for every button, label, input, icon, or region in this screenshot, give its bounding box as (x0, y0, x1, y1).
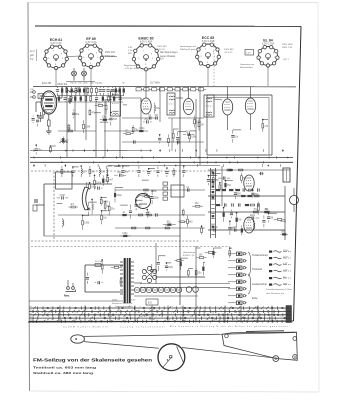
wire long vertical x75 (74, 96, 76, 131)
wire mid L2 (36, 204, 44, 206)
wire lamp link (66, 81, 95, 83)
capacitor Cam1 (34, 199, 38, 201)
capacitor C61 (159, 135, 161, 137)
capacitor C142 (86, 273, 88, 276)
resistor R163 (212, 248, 214, 250)
dial cord upper (84, 334, 219, 336)
svg-text:2,2V 0V: 2,2V 0V (157, 49, 165, 51)
svg-text:12V: 12V (160, 59, 164, 61)
resistor R45 (95, 104, 98, 106)
resistor R122 (192, 205, 195, 207)
chain component R10 (96, 88, 98, 92)
tube V5 EM84 circle (136, 194, 151, 209)
wire W75 (263, 119, 268, 121)
wire fm grid (36, 101, 41, 103)
wire W159 (203, 261, 205, 263)
svg-text:gez.: gez. (283, 277, 287, 279)
coil L81 (98, 166, 100, 169)
aux symbol X1 (269, 251, 292, 253)
resistor R80 (89, 166, 91, 169)
chain2 component R25 (95, 97, 98, 99)
wire rail if 2 (58, 130, 96, 132)
resistor R146 (120, 278, 122, 279)
resistor R54 (49, 145, 51, 148)
wire long vertical x160 (159, 87, 161, 122)
svg-text:Alle Kontakte in Stellung M vo: Alle Kontakte in Stellung M von der Achs… (170, 325, 288, 328)
plate screw right top (293, 337, 297, 341)
capacitor C143 (95, 282, 96, 284)
wire W130 (225, 180, 232, 182)
chain2 component R24 (90, 96, 92, 100)
wire rail if 3 (122, 141, 204, 143)
chain component R2 (61, 89, 63, 93)
capacitor C94 (183, 166, 185, 169)
wire ps riser x156 (155, 243, 157, 284)
capacitor C86 (122, 166, 124, 169)
resistor R140 (280, 233, 281, 235)
wire audio r2 (221, 166, 223, 206)
tube socket U2 EF 89 (79, 37, 104, 69)
svg-text:100V 85V: 100V 85V (224, 49, 234, 51)
wire switch riser W235 (224, 306, 226, 323)
capacitor C124 (207, 176, 209, 178)
wire long vertical x86 (85, 87, 87, 140)
coil L82 (106, 166, 108, 169)
aux symbol X3 (269, 264, 292, 266)
series resistor R200 (68, 130, 72, 132)
wire v4 bottom (227, 115, 229, 130)
wire ps row 3 (140, 286, 230, 288)
chain component R6 (79, 89, 81, 93)
svg-text:k: k (281, 316, 282, 318)
resistor R167 (89, 182, 91, 185)
svg-text:20kOhm/V gem.: 20kOhm/V gem. (180, 49, 196, 51)
switch bank row M (29, 313, 291, 317)
wire W96 (57, 203, 63, 205)
capacitor C131 (231, 210, 233, 212)
resistor R98 (68, 206, 70, 208)
coil L97 (62, 218, 64, 220)
svg-text:1,2V: 1,2V (128, 50, 133, 52)
resistor R169 (102, 175, 104, 178)
capacitor C59 (143, 121, 145, 123)
wire W151 (166, 262, 171, 264)
wire W55 (50, 145, 55, 147)
capacitor C95 (57, 197, 60, 199)
svg-text:1M: 1M (201, 125, 204, 127)
wire W100 (83, 214, 89, 216)
chain box L37 (191, 88, 196, 91)
svg-text:1M: 1M (270, 218, 273, 220)
resistor R128 (219, 183, 221, 185)
wire ps out (157, 276, 205, 278)
chain component R1 (56, 89, 59, 91)
resistor R135 (257, 202, 259, 206)
resistor R113 (142, 195, 145, 197)
resistor R68 (189, 131, 191, 134)
svg-text:0,3V: 0,3V (128, 47, 133, 49)
chain box L38 (198, 88, 203, 91)
resistor R106 (114, 188, 116, 193)
wire if top 3 (214, 99, 222, 100)
tube socket U4 ECC 85 (196, 36, 221, 68)
resistor R174 (104, 202, 106, 204)
resistor R157 (195, 267, 197, 270)
fm antenna terminals (30, 89, 35, 98)
chain2 component R23 (85, 96, 87, 100)
svg-text:Gemessen mit: Gemessen mit (240, 63, 254, 66)
page bottom edge (29, 391, 319, 392)
series resistor R178 (229, 169, 233, 171)
svg-text:1,2V: 1,2V (246, 53, 251, 55)
chain component R13 (107, 89, 110, 91)
frame bottom border (28, 321, 294, 322)
series resistor R181 (248, 195, 252, 197)
bus line contact ticks (33, 149, 35, 152)
electrolytic C55 (164, 287, 169, 292)
wire W52 (111, 111, 112, 113)
capacitor C89 (148, 169, 150, 170)
resistor R93 (173, 168, 175, 170)
resistor R118 (163, 224, 167, 226)
fm coil L1 (66, 87, 78, 92)
svg-text:von vorn gesehen: von vorn gesehen (116, 305, 133, 308)
mains plug Netz (64, 287, 76, 298)
svg-text:150V 55V: 150V 55V (157, 46, 167, 48)
coil L225 (253, 221, 255, 223)
chain component R14 (111, 89, 114, 91)
capacitor C88 (138, 166, 140, 169)
IF transformer Fi2 (167, 93, 175, 115)
wire switch riser W228 (84, 306, 86, 323)
bus wire heater 1 (30, 157, 293, 159)
dial lamp La1 (72, 68, 77, 81)
svg-text:geh.: geh. (30, 55, 35, 57)
wire W48 (100, 121, 108, 123)
resistor R172 (100, 197, 102, 198)
transformer primary coil (120, 262, 123, 294)
chain box L35 (175, 88, 180, 91)
wire if plate v2 (145, 87, 147, 98)
svg-text:100p: 100p (168, 267, 174, 269)
capacitor C116 (151, 191, 153, 195)
wire rail mid 2 (115, 189, 205, 191)
connector socket Bu3 (228, 266, 247, 270)
wire rail if 1 (122, 117, 158, 119)
ferrite antenna coil (82, 182, 88, 210)
wire rail audio 1 (208, 169, 290, 171)
wire W66 (178, 131, 186, 133)
resistor R175 (108, 201, 110, 206)
electrolytic C50 (134, 287, 139, 292)
page left edge (28, 2, 30, 391)
chain2 component R28 (113, 97, 115, 101)
wire W156 (188, 268, 193, 270)
svg-text:6,3V 0,45A: 6,3V 0,45A (140, 41, 153, 44)
capacitor C115 (146, 210, 148, 212)
svg-text:6,3V 0,2A: 6,3V 0,2A (86, 41, 97, 44)
aux symbol X4 (269, 270, 292, 272)
label right of EL84 (282, 44, 293, 61)
series resistor R196 (155, 116, 157, 119)
wire W46 (95, 112, 101, 114)
bus wire top main (33, 86, 296, 88)
aux symbol X5 (269, 277, 292, 279)
switch bank row T (29, 319, 291, 323)
svg-text:100p: 100p (122, 233, 128, 235)
wire rail mid 3 (58, 214, 205, 216)
svg-text:gegen Chassis: gegen Chassis (160, 56, 176, 58)
svg-text:Lspr.: Lspr. (283, 282, 288, 285)
svg-text:Stahlseil ca. 380 mm lang: Stahlseil ca. 380 mm lang (33, 371, 93, 375)
wire long vertical x120 (119, 87, 121, 157)
chain component R4 (71, 89, 73, 93)
ground fm cathode (46, 130, 52, 132)
wire W166 (230, 247, 232, 249)
audio series component R217 (250, 204, 254, 206)
bus wire hv (108, 165, 220, 167)
label left margin block (30, 49, 37, 61)
tube socket U3 EABC 80 (132, 37, 160, 72)
wire mains loop (85, 264, 123, 266)
wire switch riser W232 (167, 306, 169, 323)
wire switch riser W233 (182, 306, 184, 323)
resistor R223 (240, 173, 242, 176)
plate screw right bottom (293, 355, 297, 359)
capacitor C72 (232, 130, 234, 134)
series resistor R177 (227, 169, 231, 171)
switch bank row U (29, 306, 291, 310)
dial cord lower (84, 342, 159, 349)
svg-text:u: u (48, 316, 49, 318)
series resistor R191 (147, 214, 151, 216)
svg-text:1M: 1M (78, 83, 81, 85)
electrolytic C51 (140, 287, 145, 292)
tube V6a EABC80 af (244, 175, 254, 191)
output transformer (283, 168, 290, 182)
resistor R47 (100, 119, 102, 121)
wire W164 (213, 247, 221, 249)
wire rail audio 3 (208, 211, 285, 213)
resistor R70 (194, 116, 196, 119)
capacitor C77 (72, 167, 74, 169)
bus wire mid low (30, 150, 152, 152)
wire W107 (115, 187, 123, 189)
svg-text:Spannungen mit: Spannungen mit (180, 45, 196, 48)
tube V3 EF89 (183, 99, 193, 115)
svg-text:U=UKW K=Kurz M=Mittel: U=UKW K=Kurz M=Mittel (63, 325, 109, 328)
svg-text:1M: 1M (91, 172, 94, 174)
wire W173 (101, 196, 107, 198)
resistor R133 (241, 226, 243, 228)
dial chassis plate (222, 332, 297, 360)
wire socket stub 3 (145, 70, 147, 87)
frame top border (35, 25, 301, 27)
svg-text:-2V 0,7V: -2V 0,7V (224, 52, 233, 54)
wire out loop bottom (207, 154, 272, 156)
label left of EABC80 (128, 47, 133, 55)
connector socket Bu5 (228, 280, 247, 284)
resistor R129 (224, 181, 226, 183)
label right of EABC80 volts (157, 46, 167, 61)
audio series component R210 (248, 189, 252, 191)
label below EABC80 (124, 65, 140, 70)
chain component R12 (102, 89, 105, 91)
resistor R168 (94, 175, 96, 180)
wire long vertical x105 (104, 99, 106, 157)
svg-text:k: k (135, 313, 136, 315)
wire rail audio 4 (208, 229, 285, 231)
svg-text:100p: 100p (154, 198, 160, 200)
resistor R40 (62, 137, 64, 138)
capacitor C219 (218, 177, 221, 179)
capacitor C53 (35, 145, 37, 147)
svg-text:Si 0,5A: Si 0,5A (95, 260, 103, 263)
capacitor C222 (234, 188, 236, 191)
svg-text:Textilseil ca. 603 mm lang: Textilseil ca. 603 mm lang (33, 366, 96, 370)
fuse Si (95, 264, 101, 267)
series resistor R193 (165, 227, 169, 229)
wire left vertical x44 (43, 184, 45, 236)
wire socket link 1 (67, 55, 79, 58)
resistor R63 (172, 129, 174, 133)
audio series component R212 (216, 204, 220, 206)
wire switch riser W234 (195, 306, 197, 323)
wire audio r1 (284, 186, 286, 240)
resistor R104 (101, 211, 103, 215)
svg-text:0,5M: 0,5M (60, 195, 65, 197)
wire W105 (102, 210, 108, 212)
capacitor C111 (135, 200, 137, 203)
svg-text:1M: 1M (117, 172, 120, 174)
audio series component R218 (257, 203, 259, 206)
resistor R44 (89, 108, 91, 111)
resistor R108 (120, 235, 122, 237)
coil L171 (91, 199, 93, 204)
series resistor R195 (132, 227, 136, 229)
wire if top 2 (176, 97, 183, 99)
chain component R11 (99, 89, 102, 91)
capacitor C51 (110, 112, 112, 116)
resistor R56 (123, 133, 126, 135)
wire W83 (107, 165, 113, 167)
wire W85 (114, 165, 121, 167)
IF transformer Fi1 (111, 91, 121, 116)
wire W50 (106, 99, 112, 101)
wire W141 (280, 220, 286, 222)
resistor R170 (107, 175, 109, 177)
svg-text:k: k (85, 316, 86, 318)
wire socket stub 1 (55, 68, 57, 86)
capacitor C42 (73, 110, 75, 112)
svg-text:Rohrenvoltm.: Rohrenvoltm. (240, 66, 253, 69)
audio series component R207 (229, 189, 233, 191)
svg-text:10,7 MHz: 10,7 MHz (150, 83, 161, 85)
series resistor R186 (233, 228, 235, 231)
svg-text:Schalter in Stellung M: Schalter in Stellung M (112, 302, 132, 305)
chain2 component R26 (102, 97, 104, 101)
resistor R74 (262, 120, 264, 124)
switch note text (112, 302, 133, 308)
coil L79 (80, 166, 82, 169)
wire W161 (196, 247, 200, 249)
wire W112 (136, 199, 142, 201)
dial cord upper right (219, 333, 295, 335)
chain2 component R20 (70, 96, 72, 100)
resistor R144 (101, 260, 103, 264)
resistor R120 (182, 209, 184, 210)
svg-text:d1: d1 (30, 316, 32, 318)
audio series component R213 (223, 203, 225, 206)
chain component R5 (75, 88, 77, 92)
chain2 wire lower (58, 101, 123, 103)
wire W114 (142, 179, 149, 181)
page top edge (28, 2, 318, 4)
stack rect col (163, 182, 168, 185)
wire switch riser W236 (240, 306, 242, 323)
capacitor C67 (183, 133, 186, 135)
chain component R7 (83, 89, 85, 93)
wire switch riser W231 (151, 306, 153, 323)
capacitor C91 (157, 167, 159, 170)
resistor R121 (187, 216, 189, 219)
svg-text:k: k (244, 309, 245, 311)
series resistor R187 (186, 188, 188, 191)
label right of EABC80 (160, 51, 178, 58)
wire W87 (123, 165, 129, 167)
wire out loop top (207, 94, 272, 96)
chassis dashed line (31, 170, 218, 172)
resistor R49 (105, 100, 107, 105)
series resistor R198 (133, 140, 135, 143)
svg-text:220V~: 220V~ (112, 300, 119, 302)
wire W149 (158, 255, 165, 257)
dashed shield vertical (53, 172, 55, 240)
tube V7 EL84 circle (290, 196, 299, 205)
wire ps row 2 (140, 283, 230, 285)
series resistor R194 (146, 227, 150, 229)
capacitor C136 (263, 215, 265, 218)
svg-text:220k: 220k (117, 195, 123, 197)
capacitor C226 (259, 173, 261, 175)
capacitor C134 (252, 190, 254, 191)
wire W78 (73, 166, 79, 168)
dashed shield vertical 2 (213, 40, 215, 86)
label gleichrichter (183, 251, 196, 257)
svg-text:95V: 95V (128, 53, 132, 55)
series resistor R189 (155, 213, 157, 216)
svg-text:Netz: Netz (64, 294, 70, 298)
svg-text:Regelspannung: Regelspannung (124, 65, 140, 67)
dial pulley small (71, 335, 85, 343)
wire ps row upper (29, 300, 123, 302)
wire long vertical x141 (140, 99, 142, 130)
svg-text:a1: a1 (30, 306, 32, 308)
connector socket Bu7 (228, 294, 247, 298)
audio series component R211 (257, 188, 259, 191)
svg-text:140V 11V: 140V 11V (105, 56, 115, 58)
chain component R16 (119, 89, 121, 93)
wire W109 (120, 204, 128, 206)
capacitor C150 (165, 263, 167, 264)
svg-text:127V: 127V (283, 257, 288, 259)
connector socket Bu8 (228, 301, 247, 305)
chain2 component R27 (108, 96, 110, 100)
tube V4a EABC80 triode (222, 99, 232, 115)
series resistor R185 (213, 228, 215, 231)
svg-text:220k: 220k (96, 183, 102, 185)
switch bank row L (29, 316, 291, 320)
